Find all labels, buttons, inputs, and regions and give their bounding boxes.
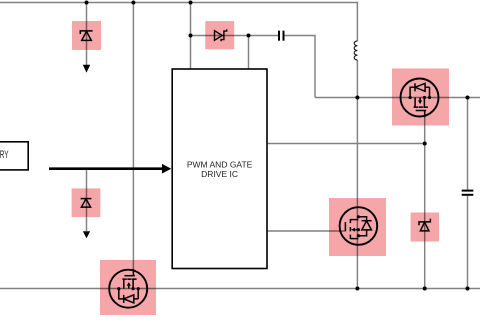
svg-text:DRIVE IC: DRIVE IC [201, 169, 238, 179]
svg-text:BATTERY: BATTERY [0, 148, 9, 160]
svg-text:PWM AND GATE: PWM AND GATE [187, 160, 253, 170]
